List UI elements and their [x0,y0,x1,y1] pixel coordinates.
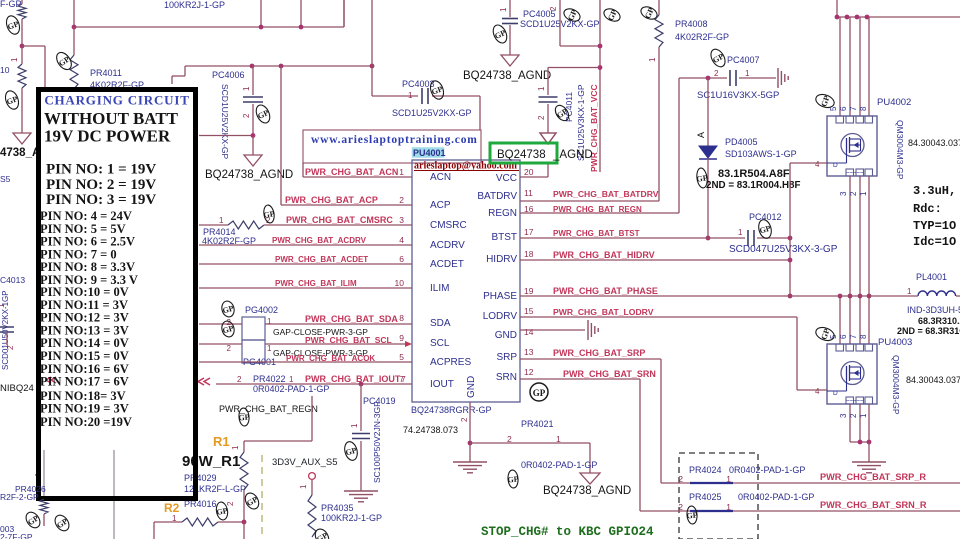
GP symbol [313,527,332,539]
svg-text:SCL: SCL [430,338,450,349]
wire net PWR_CHG_BAT_PHASE [520,286,918,296]
wire net PWR_CHG_BAT_REGN [520,205,679,214]
svg-text:SCD1U25V2KX-GP: SCD1U25V2KX-GP [392,108,472,118]
transistor PU4002 (QM3004M3-GP) [827,97,960,180]
svg-text:0R0402-PAD-1-GP: 0R0402-PAD-1-GP [729,465,805,475]
svg-text:PWR_CHG_BAT_BTST: PWR_CHG_BAT_BTST [553,229,640,238]
capacitor PC4005 [499,0,600,55]
GP symbol [23,510,43,531]
wire net PWR_CHG_BAT_BATDRV [520,189,659,201]
net arrow (cut) [46,377,56,383]
svg-text:1: 1 [289,375,294,384]
svg-text:PIN NO: 3 = 19V: PIN NO: 3 = 19V [46,192,156,208]
svg-text:SRN: SRN [496,372,517,383]
svg-text:PR4025: PR4025 [689,492,722,502]
svg-text:R2F-2-GP: R2F-2-GP [0,492,39,502]
svg-text:SC100P50V2JN-3GP: SC100P50V2JN-3GP [372,401,382,483]
www.arieslaptoptraining.com banner [303,130,481,163]
svg-text:QM3004M3-GP: QM3004M3-GP [895,120,905,180]
wire PU4002 sources to PHASE [839,176,869,296]
svg-text:2: 2 [226,501,235,506]
svg-text:PL4001: PL4001 [916,272,947,282]
resistor PR4022 net PWR_CHG_BAT_IOUT [198,374,412,394]
highlight PU4001 [412,148,446,159]
svg-text:2ND = 68.3R31C: 2ND = 68.3R31C [897,326,960,336]
pin name GND vertical [466,376,477,398]
svg-text:C4013: C4013 [0,275,25,285]
svg-text:BATDRV: BATDRV [477,191,517,202]
svg-text:1: 1 [0,303,6,308]
GP symbol dark [695,167,709,188]
svg-text:BQ24738_AGND: BQ24738_AGND [543,485,631,497]
svg-text:3: 3 [839,191,848,196]
svg-text:11: 11 [524,188,533,198]
part BQ24738RGRR-GP [411,405,492,415]
svg-text:PWR_CHG_BAT_ILIM: PWR_CHG_BAT_ILIM [275,279,357,288]
svg-text:BTST: BTST [491,232,517,243]
part number 83.1R504.A8F [706,168,800,191]
svg-text:~~~~~: ~~~~~ [846,171,864,177]
svg-text:PR4022: PR4022 [253,374,286,384]
svg-text:1: 1 [745,69,750,78]
svg-text:68.3R310.2: 68.3R310.2 [918,316,960,326]
wire PC4003 to www-box [479,96,481,130]
svg-text:PU4003: PU4003 [878,337,912,348]
svg-text:18: 18 [524,249,534,259]
svg-text:1: 1 [299,484,308,489]
capacitor PC4003 [372,66,480,118]
wire top-right rail y=17 [835,0,960,19]
net name PWR_CHG_BAT_VCC (vertical) [589,84,599,172]
svg-text:3: 3 [399,215,404,225]
svg-text:2: 2 [507,434,512,444]
svg-text:9: 9 [399,333,404,343]
GP symbol [215,501,229,521]
svg-text:BQ24738: BQ24738 [497,149,546,161]
svg-text:1: 1 [350,423,359,428]
net label S5 [0,174,11,184]
GP symbol [238,408,251,427]
svg-text:PWR_CHG_BAT_SRP: PWR_CHG_BAT_SRP [553,348,645,358]
wire net PWR_CHG_BAT_ILIM [199,279,412,288]
svg-text:17: 17 [524,227,534,237]
GP symbol [428,79,446,101]
capacitor C4013 (left edge) [0,275,25,370]
pin 4 label PU4003 [815,387,820,396]
svg-text:PR4035: PR4035 [321,503,354,513]
wire net PWR_CHG_BAT_SRP [520,348,661,483]
wire GND pin 2 to PR4021 [460,402,590,462]
GP symbol [686,506,699,525]
svg-text:ACDRV: ACDRV [430,240,465,251]
svg-text:PU4001: PU4001 [413,148,446,158]
svg-text:CHARGING CIRCUIT: CHARGING CIRCUIT [44,93,189,108]
svg-text:4: 4 [815,387,820,396]
GP symbol [220,300,236,319]
resistor PR4026 [0,484,48,526]
GP symbol [491,23,510,45]
svg-text:1: 1 [499,7,508,12]
GP symbol [814,92,836,110]
svg-text:NIBQ24: NIBQ24 [0,383,34,394]
svg-text:GP: GP [696,173,708,183]
GP symbol [708,47,728,69]
email arieslaptop@yahoo.com [414,161,519,172]
op-amp U1 charger IC PU4001 BQ24738 [412,160,520,402]
svg-text:6: 6 [399,254,404,264]
svg-text:1: 1 [726,474,731,484]
svg-text:REGN: REGN [488,208,517,219]
svg-text:PR4029: PR4029 [184,473,217,483]
diode PD4005 [696,78,797,238]
svg-text:2: 2 [549,6,558,11]
svg-text:STOP_CHG# to KBC GPIO24: STOP_CHG# to KBC GPIO24 [481,525,654,539]
svg-text:PWR_CHG_BAT_REGN: PWR_CHG_BAT_REGN [553,205,642,214]
svg-text:74.24738.073: 74.24738.073 [403,425,458,435]
svg-text:1: 1 [726,502,731,512]
net label PWR_CHG_BAT_REGN (black) [219,404,318,414]
capacitor PC4006 [212,66,263,159]
svg-text:3.3uH,: 3.3uH, [913,184,956,198]
resistor PR4024 net PWR_CHG_BAT_SRP_R [661,465,960,484]
svg-text:PD4005: PD4005 [725,137,758,147]
resistor PR4035 [308,495,382,537]
svg-text:SD103AWS-1-GP: SD103AWS-1-GP [725,149,797,159]
wire net PWR_CHG_BAT_HIDRV [520,250,790,260]
wire stub from box to PC4006 [199,133,255,155]
resistor PR4014 net PWR_CHG_BAT_CMSRC [199,215,412,246]
svg-text:19: 19 [524,286,534,296]
svg-text:PIN NO:17 = 6V: PIN NO:17 = 6V [40,375,129,389]
svg-text:15: 15 [524,306,534,316]
GP symbol [602,6,622,23]
wire PU4003 sources to ground [839,404,871,462]
svg-text:PWR_CHG_BAT_ACDRV: PWR_CHG_BAT_ACDRV [272,236,367,245]
svg-text:ACDET: ACDET [430,259,464,270]
svg-text:1: 1 [556,434,561,444]
wire top-left rail y=27 [72,0,344,29]
svg-text:PWR_CHG_BAT_SCL: PWR_CHG_BAT_SCL [305,335,392,345]
svg-text:2: 2 [460,417,469,422]
svg-text:ACP: ACP [430,200,451,211]
wire REGN riser [678,78,680,213]
pin 4 label PU4002 [815,160,820,169]
wire rail y=66 [172,0,374,84]
wire drains to PU4002 [840,17,869,116]
svg-text:4738_A: 4738_A [0,147,40,159]
capacitor PC4011 [537,68,600,162]
svg-text:PR4008: PR4008 [675,19,708,29]
wire VCC pin 20 [520,176,548,178]
svg-text:PWR_CHG_BAT_PHASE: PWR_CHG_BAT_PHASE [553,286,658,296]
svg-text:2: 2 [678,502,683,512]
subtitle WITHOUT BATT 19V DC POWER [44,109,179,146]
svg-text:2-7F-GP: 2-7F-GP [0,532,33,539]
svg-text:www.arieslaptoptraining.com: www.arieslaptoptraining.com [311,134,478,146]
svg-text:1: 1 [242,86,251,91]
title CHARGING CIRCUIT [44,93,189,108]
ground (PC4007) [778,68,788,88]
svg-text:4: 4 [399,235,404,245]
svg-text:84.30043.037: 84.30043.037 [908,138,960,148]
svg-text:2: 2 [849,191,858,196]
svg-text:CMSRC: CMSRC [430,220,467,231]
svg-text:PWR_CHG_BAT_ACP: PWR_CHG_BAT_ACP [285,195,378,205]
svg-text:PWR_CHG_BAT_ACOK: PWR_CHG_BAT_ACOK [286,354,375,363]
ground BQ24738_AGND (left edge) [0,133,40,159]
wire net PWR_CHG_BAT_LODRV [520,307,797,317]
inductor PL4001 [897,272,960,336]
svg-text:100KR2J-1-GP: 100KR2J-1-GP [164,0,225,10]
svg-text:1: 1 [219,216,224,225]
wire HIDRV gate riser x=790 [788,163,827,298]
GP symbol [639,4,659,21]
GP symbol [553,103,572,123]
svg-text:8: 8 [859,106,868,111]
svg-text:10: 10 [395,278,405,288]
wire stub under box middle [113,450,115,539]
svg-text:QM3004M3-GP: QM3004M3-GP [891,355,901,415]
svg-text:GP: GP [507,475,519,485]
svg-text:R1: R1 [213,434,230,449]
note STOP_CHG# to KBC GPIO24 [481,525,654,539]
net label BQ24 (cut) [0,383,34,394]
pin names right side PU4001 [477,173,517,383]
svg-text:IND-3D3UH-5: IND-3D3UH-5 [907,305,960,315]
svg-text:PR4021: PR4021 [521,419,554,429]
svg-text:1: 1 [907,287,912,296]
svg-text:D: D [833,390,838,397]
svg-text:19V DC POWER: 19V DC POWER [44,127,171,146]
svg-text:GP: GP [263,209,276,220]
svg-text:13: 13 [524,347,534,357]
svg-text:SC1U16V3KX-5GP: SC1U16V3KX-5GP [697,90,779,101]
svg-text:83.1R504.A8F: 83.1R504.A8F [718,168,790,180]
GP symbol [3,89,21,111]
svg-text:10: 10 [0,65,10,75]
wire stub under box left [34,450,44,499]
svg-text:PC4006: PC4006 [212,70,245,80]
svg-text:SCD1U25V2KX-GP: SCD1U25V2KX-GP [220,84,230,159]
svg-text:0R0402-PAD-1-GP: 0R0402-PAD-1-GP [738,492,814,502]
wire net PWR_CHG_BAT_ACDET [199,255,412,264]
svg-text:5: 5 [399,352,404,362]
svg-text:1: 1 [172,514,177,523]
svg-text:8: 8 [859,334,868,339]
GP symbol [562,6,582,23]
pin numbers left PU4001 [395,167,405,384]
svg-text:2: 2 [6,345,15,350]
svg-text:8: 8 [399,313,404,323]
pin names left side PU4001 [430,172,471,390]
resistor PR4025 net PWR_CHG_BAT_SRN_R [640,492,960,512]
svg-text:PWR_CHG_BAT_BATDRV: PWR_CHG_BAT_BATDRV [553,189,659,199]
svg-text:PHASE: PHASE [483,291,517,302]
wire net PWR_CHG_BAT_ACOK [199,354,412,363]
svg-text:PWR_CHG_BAT_REGN: PWR_CHG_BAT_REGN [219,404,318,414]
svg-text:F-GP: F-GP [0,0,22,9]
svg-text:_AGND: _AGND [552,149,593,161]
svg-text:GP: GP [533,388,546,398]
wire net PWR_CHG_BAT_ACP [281,66,412,205]
svg-text:PWR_CHG_BAT_SRP_R: PWR_CHG_BAT_SRP_R [820,472,926,482]
svg-text:PG4002: PG4002 [245,305,278,315]
svg-text:1: 1 [267,317,272,326]
svg-text:1: 1 [537,86,546,91]
svg-text:GP: GP [238,413,250,423]
ground (PC4019) [344,491,378,502]
svg-text:BQ24738RGRR-GP: BQ24738RGRR-GP [411,405,492,415]
svg-text:VCC: VCC [496,173,517,184]
svg-text:PIN NO:20 =19V: PIN NO:20 =19V [40,415,132,429]
svg-text:PWR_CHG_BAT_IOUT: PWR_CHG_BAT_IOUT [305,374,401,384]
charging circuit info box [39,90,196,499]
svg-text:PU4002: PU4002 [877,97,911,108]
capacitor PC4007 on REGN [679,55,779,101]
ground triangle above BQ24738 tag [540,133,556,144]
ground BQ24738_AGND (PR4021) [543,473,631,497]
svg-text:2ND = 83.1R004.H8F: 2ND = 83.1R004.H8F [706,180,800,191]
GP symbol [262,204,276,224]
ground BQ24738_AGND (under PC4005) [463,55,551,82]
resistor PR4010 lower [0,46,26,133]
svg-text:ILIM: ILIM [430,283,449,294]
svg-text:A: A [696,132,706,138]
wire LODRV gate riser x=797 [797,317,827,390]
svg-text:PIN NO: 2 = 19V: PIN NO: 2 = 19V [46,177,156,193]
svg-text:2: 2 [537,115,546,120]
resistor PR4008 [648,0,729,201]
svg-text:PR4011: PR4011 [90,68,122,78]
svg-text:SCD01U50V2KX-1GP: SCD01U50V2KX-1GP [1,290,10,370]
svg-text:GND: GND [466,376,477,398]
svg-text:1: 1 [648,57,657,62]
svg-text:S5: S5 [0,174,11,184]
green highlight box BQ24738_AGND [490,133,593,177]
GP symbol [243,491,262,512]
svg-text:PC4007: PC4007 [727,55,760,65]
svg-text:PWR_CHG_BAT_ACN: PWR_CHG_BAT_ACN [305,167,398,177]
resistor PR4016 (R2) [154,499,246,539]
svg-text:2: 2 [399,195,404,205]
ground (IC GND) [453,462,487,473]
pin voltage list (large) [46,162,156,209]
svg-text:Rdc:: Rdc: [913,202,942,216]
svg-text:PWR_CHG_BAT_HIDRV: PWR_CHG_BAT_HIDRV [553,250,655,260]
svg-text:PWR_CHG_BAT_SDA: PWR_CHG_BAT_SDA [305,314,398,324]
ground (pin 14) [588,320,598,340]
GP symbol [507,470,520,489]
svg-text:PIN NO:19 = 3V: PIN NO:19 = 3V [40,402,129,416]
svg-text:84.30043.037: 84.30043.037 [906,375,960,385]
svg-text:PR4024: PR4024 [689,465,722,475]
svg-text:1: 1 [408,91,413,100]
svg-text:SDA: SDA [430,318,451,329]
note 3.3uH Rdc [913,184,956,249]
node label 1 [10,57,19,62]
ground (PU4003 source) [852,462,886,473]
wire GND pin 14 [520,329,585,331]
svg-text:6: 6 [839,106,848,111]
GP symbol [220,320,236,339]
svg-text:PWR_CHG_BAT_SRN_R: PWR_CHG_BAT_SRN_R [820,500,927,510]
svg-text:2: 2 [714,69,719,78]
svg-text:100KR2J-1-GP: 100KR2J-1-GP [321,513,382,523]
svg-text:D: D [833,162,838,169]
GP symbol [757,218,774,239]
GP symbol [54,50,75,72]
svg-text:PWR_CHG_BAT_LODRV: PWR_CHG_BAT_LODRV [553,307,654,317]
svg-text:SRP: SRP [496,352,517,363]
pin numbers right PU4001 [524,167,534,377]
wire net PWR_CHG_BAT_ACN [303,163,412,177]
svg-text:R2: R2 [164,501,180,515]
svg-text:TYP=1O: TYP=1O [913,219,956,233]
svg-text:1: 1 [738,228,743,237]
svg-text:90W_R1: 90W_R1 [182,453,240,470]
wire net VCC riser x=600 [549,0,602,172]
ground BQ24738_AGND (under PC4006) [205,155,293,181]
jumper PG4001 GAP-CLOSE-PWR-3-GP [199,335,412,367]
svg-text:6: 6 [839,334,848,339]
svg-text:WITHOUT BATT: WITHOUT BATT [44,109,179,128]
svg-text:1: 1 [859,413,868,418]
label 90W_R1 [182,453,240,470]
resistor PR4011 [70,27,144,90]
transistor PU4003 (QM3004M3-GP) [827,294,960,415]
wire net PWR_CHG_BAT_BTST [520,229,745,238]
svg-text:PWR_CHG_BAT_ACDET: PWR_CHG_BAT_ACDET [275,255,368,264]
svg-text:3D3V_AUX_S5: 3D3V_AUX_S5 [272,457,337,468]
svg-text:PWR_CHG_BAT_CMSRC: PWR_CHG_BAT_CMSRC [286,215,393,225]
svg-text:2: 2 [849,413,858,418]
wire net PWR_CHG_BAT_SRN [520,369,656,511]
svg-text:BQ24738_AGND: BQ24738_AGND [205,169,293,181]
svg-text:HIDRV: HIDRV [486,254,517,265]
resistor PR4010 upper (left edge) [0,0,26,46]
svg-text:1: 1 [859,191,868,196]
svg-text:IOUT: IOUT [430,379,454,390]
svg-text:14: 14 [524,327,534,337]
svg-text:LODRV: LODRV [483,311,518,322]
capacitor PC4012 on BTST [706,212,838,255]
svg-text:3: 3 [839,413,848,418]
svg-text:GND: GND [495,330,517,341]
svg-text:1: 1 [399,167,404,177]
wire net PWR_CHG_BAT_ACDRV [199,236,412,245]
resistor label 100KR2J-1-GP (top) [164,0,225,10]
wire left junction [20,44,45,87]
svg-text:12: 12 [524,367,534,377]
svg-text:7: 7 [849,334,858,339]
resistor PR4029 (R1) [184,445,248,522]
svg-text:Idc=1O: Idc=1O [913,235,956,249]
GP symbol [4,14,22,36]
svg-text:~~~~~: ~~~~~ [846,399,864,405]
svg-text:7: 7 [401,374,406,384]
svg-text:PWR_CHG_BAT_SRN: PWR_CHG_BAT_SRN [563,369,656,379]
svg-text:4: 4 [815,160,820,169]
part number 74.24738.073 [403,425,458,435]
GP symbol [254,103,273,125]
svg-text:2: 2 [678,474,683,484]
GP symbol [814,325,836,343]
svg-text:7: 7 [849,106,858,111]
svg-text:1: 1 [231,445,240,450]
svg-text:0R0402-PAD-1-GP: 0R0402-PAD-1-GP [253,384,329,394]
label R1 [213,434,230,449]
svg-text:ACPRES: ACPRES [430,357,471,368]
